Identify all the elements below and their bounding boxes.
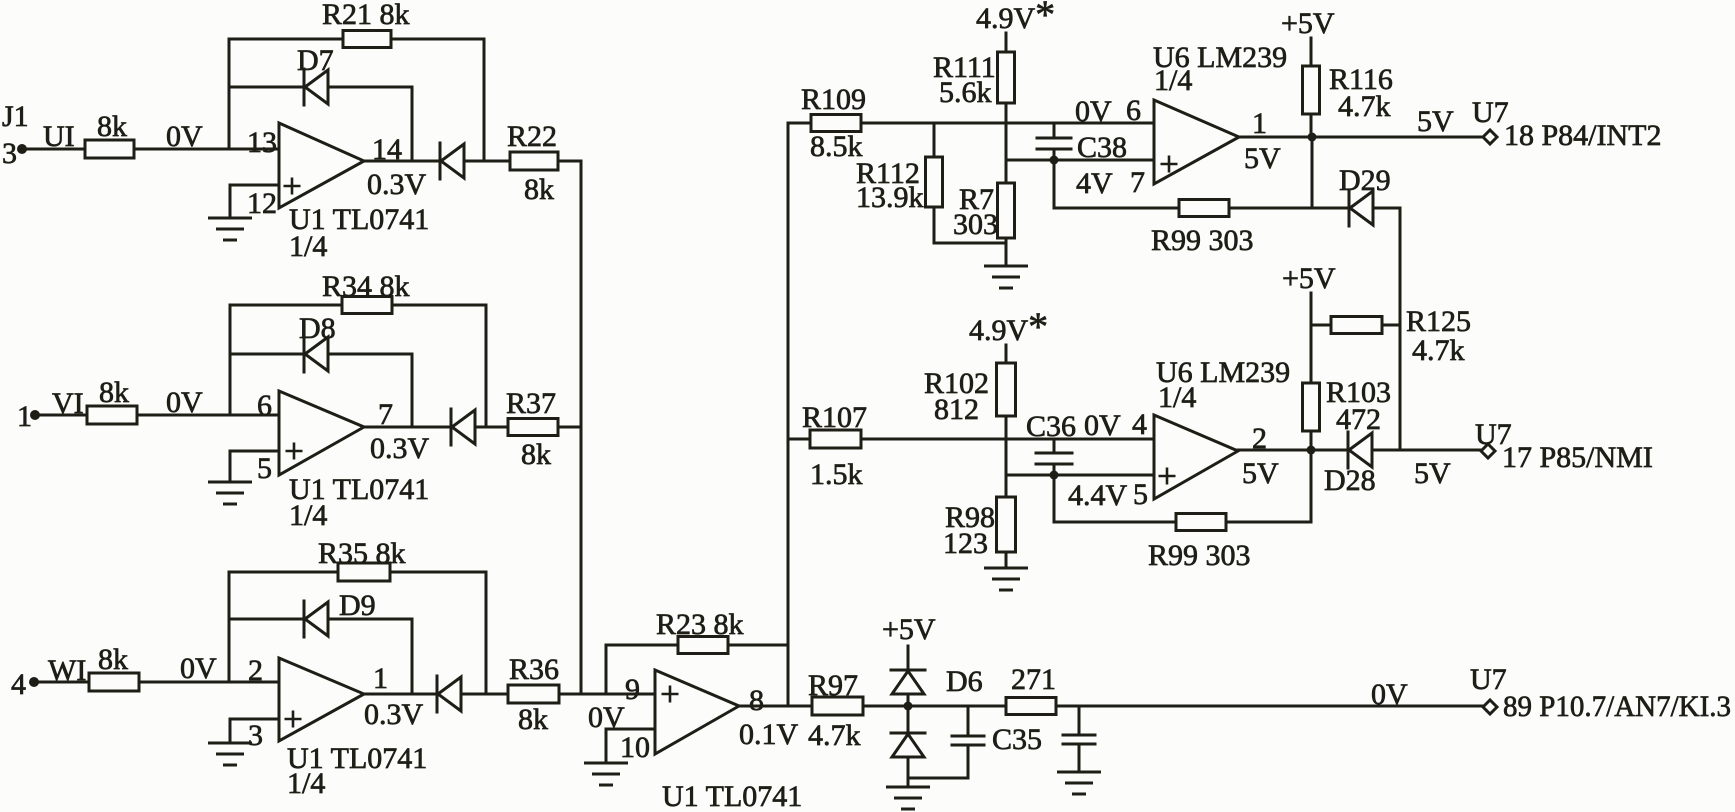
wire	[22, 148, 85, 151]
junction dot	[904, 702, 913, 711]
wire	[1054, 207, 1179, 210]
wire	[605, 729, 608, 763]
ground	[888, 786, 929, 789]
svg-text:271: 271	[1011, 663, 1056, 696]
wire	[390, 571, 486, 574]
wire	[1310, 293, 1313, 383]
wire	[1310, 114, 1313, 137]
wire	[461, 693, 508, 696]
wire (summing bus)	[580, 161, 583, 693]
resistor R97	[812, 697, 863, 715]
svg-text:5V: 5V	[1417, 105, 1454, 138]
svg-text:12: 12	[247, 187, 277, 220]
ground	[210, 217, 251, 220]
wire	[1053, 475, 1056, 522]
wire	[907, 646, 910, 670]
wire	[229, 719, 232, 743]
wire	[1056, 705, 1483, 708]
wire	[1005, 33, 1008, 52]
wire	[1005, 103, 1008, 123]
resistor 8k (UI input)	[85, 140, 134, 158]
resistor 8k (WI input)	[89, 673, 139, 691]
svg-text:4.9V*: 4.9V*	[976, 0, 1055, 37]
svg-text:2: 2	[248, 654, 263, 687]
input terminal dot (J1 pin 3)	[17, 144, 27, 154]
wire	[229, 38, 343, 41]
junction dot	[1050, 156, 1059, 165]
resistor R109	[811, 115, 861, 132]
resistor 271	[1006, 698, 1056, 715]
resistor R99 (comparator 2 feedback)	[1176, 514, 1226, 531]
diode D6 lower (clamp to ground)	[891, 732, 925, 735]
svg-text:R34 8k: R34 8k	[322, 270, 410, 303]
wire	[861, 122, 1154, 125]
op-amp U1B TL0741	[279, 391, 364, 475]
svg-text:4.9V*: 4.9V*	[969, 304, 1048, 349]
wire	[230, 184, 279, 187]
wire	[229, 185, 232, 218]
wire	[228, 39, 231, 149]
svg-text:18 P84/INT2: 18 P84/INT2	[1504, 119, 1662, 152]
wire	[483, 39, 486, 161]
junction dot	[1307, 446, 1316, 455]
terminal U7 pin 17	[1481, 444, 1495, 458]
svg-text:8.5k: 8.5k	[810, 130, 863, 163]
svg-text:C35: C35	[992, 723, 1042, 756]
svg-text:0V: 0V	[1075, 95, 1112, 128]
resistor R37	[508, 419, 558, 436]
wire	[606, 644, 678, 647]
resistor R7	[998, 183, 1015, 238]
capacitor (output filter)	[1078, 706, 1081, 735]
wire	[230, 450, 279, 453]
svg-text:R37: R37	[506, 387, 556, 420]
svg-text:4.4V: 4.4V	[1068, 479, 1128, 512]
resistor R102	[997, 363, 1016, 416]
wire	[1006, 474, 1154, 477]
op-amp U1A TL0741	[279, 123, 364, 208]
wire	[392, 304, 486, 307]
svg-text:472: 472	[1336, 403, 1381, 436]
svg-text:R35 8k: R35 8k	[318, 537, 406, 570]
diode D7	[303, 69, 306, 105]
svg-text:D6: D6	[946, 665, 983, 698]
wire	[1310, 38, 1313, 66]
diode D28	[1347, 432, 1350, 468]
wire	[230, 718, 279, 721]
wire	[728, 644, 788, 647]
svg-text:17 P85/NMI: 17 P85/NMI	[1502, 441, 1653, 474]
wire	[1310, 450, 1313, 522]
svg-text:5V: 5V	[1242, 457, 1279, 490]
wire	[1006, 159, 1154, 162]
wire	[1054, 521, 1176, 524]
wire	[933, 207, 936, 243]
wire	[1238, 449, 1481, 452]
wire	[788, 122, 811, 125]
svg-text:VI: VI	[52, 387, 84, 420]
svg-text:J1: J1	[2, 100, 29, 133]
wire	[328, 618, 412, 621]
svg-text:U7: U7	[1470, 663, 1507, 696]
svg-text:3: 3	[2, 137, 17, 170]
wire	[1005, 238, 1008, 266]
svg-text:4.7k: 4.7k	[1412, 334, 1465, 367]
svg-text:R36: R36	[509, 653, 559, 686]
svg-text:U1 TL0741: U1 TL0741	[662, 780, 802, 812]
capacitor C36	[1053, 439, 1056, 453]
svg-text:123: 123	[943, 527, 988, 560]
terminal U7 pin 18	[1483, 130, 1497, 144]
svg-text:+5V: +5V	[882, 613, 936, 646]
wire	[559, 693, 655, 696]
wire	[788, 438, 810, 441]
wire	[863, 705, 1006, 708]
svg-text:0.3V: 0.3V	[367, 168, 427, 201]
wire	[907, 694, 910, 706]
wire	[485, 572, 488, 694]
wire	[364, 160, 440, 163]
svg-text:D7: D7	[297, 44, 334, 77]
svg-text:4.7k: 4.7k	[808, 719, 861, 752]
wire	[908, 777, 968, 780]
wire	[328, 86, 412, 89]
wire	[934, 242, 1006, 245]
svg-text:R23 8k: R23 8k	[656, 608, 744, 641]
svg-text:D9: D9	[339, 589, 376, 622]
svg-text:1/4: 1/4	[289, 499, 327, 532]
wire	[464, 160, 510, 163]
svg-text:1: 1	[1252, 107, 1267, 140]
wire	[35, 414, 87, 417]
wire	[411, 619, 414, 694]
wire	[228, 572, 231, 682]
wire	[34, 681, 89, 684]
input terminal dot (pin 1)	[30, 410, 40, 420]
comparator U6B LM239	[1154, 415, 1238, 499]
svg-text:8k: 8k	[518, 703, 548, 736]
svg-text:4V: 4V	[1076, 167, 1113, 200]
svg-text:+5V: +5V	[1281, 7, 1335, 40]
svg-text:13: 13	[247, 126, 277, 159]
op-amp U1D TL0741	[655, 670, 739, 754]
wire	[606, 728, 655, 731]
svg-text:R107: R107	[802, 401, 867, 434]
capacitor C38	[1053, 123, 1056, 138]
ground	[1059, 771, 1100, 774]
svg-text:UI: UI	[43, 120, 75, 153]
svg-text:10: 10	[620, 731, 650, 764]
ground	[586, 762, 627, 765]
wire	[1005, 552, 1008, 568]
wire	[411, 87, 414, 161]
wire	[475, 426, 508, 429]
resistor R23	[678, 637, 728, 654]
svg-text:4: 4	[11, 668, 26, 701]
svg-text:89 P10.7/AN7/KI.3: 89 P10.7/AN7/KI.3	[1503, 690, 1731, 723]
ground	[210, 481, 251, 484]
svg-text:1: 1	[17, 400, 32, 433]
wire	[229, 451, 232, 482]
svg-text:D8: D8	[299, 312, 336, 345]
wire	[328, 353, 412, 356]
resistor R35	[338, 563, 390, 581]
wire	[1399, 208, 1402, 450]
wire	[411, 354, 414, 427]
svg-text:6: 6	[1126, 94, 1141, 127]
wire	[137, 414, 279, 417]
wire (output bus)	[787, 123, 790, 706]
wire	[229, 618, 304, 621]
resistor R22	[510, 152, 558, 170]
svg-text:6: 6	[257, 389, 272, 422]
wire	[1239, 136, 1483, 139]
diode (output, channel U)	[439, 143, 442, 179]
svg-text:812: 812	[934, 393, 979, 426]
ground	[986, 567, 1027, 570]
wire	[230, 304, 342, 307]
wire	[1005, 416, 1008, 439]
resistor R99 (comparator 1 feedback)	[1179, 200, 1229, 217]
svg-text:303: 303	[953, 208, 998, 241]
wire	[364, 693, 437, 696]
resistor R111	[998, 52, 1015, 103]
svg-text:R109: R109	[801, 83, 866, 116]
svg-text:+5V: +5V	[1282, 262, 1336, 295]
junction dot	[1308, 133, 1317, 142]
svg-text:1/4: 1/4	[1154, 64, 1192, 97]
wire	[907, 758, 910, 787]
svg-text:7: 7	[1130, 166, 1145, 199]
diode (output, channel W)	[436, 676, 439, 712]
svg-text:0.3V: 0.3V	[370, 432, 430, 465]
svg-text:3: 3	[248, 719, 263, 752]
svg-text:4.7k: 4.7k	[1338, 90, 1391, 123]
svg-text:1/4: 1/4	[1158, 381, 1196, 414]
resistor R112	[926, 157, 943, 207]
svg-text:0V: 0V	[1084, 409, 1121, 442]
ground	[986, 265, 1027, 268]
svg-text:5: 5	[1133, 478, 1148, 511]
svg-text:0V: 0V	[1371, 678, 1408, 711]
resistor 8k (VI input)	[87, 406, 137, 424]
resistor R98	[997, 497, 1016, 552]
wire	[1005, 345, 1008, 363]
wire	[1005, 123, 1008, 183]
svg-text:4: 4	[1132, 408, 1147, 441]
junction dot	[1050, 471, 1059, 480]
resistor R34	[342, 297, 392, 314]
wire	[1311, 137, 1314, 208]
capacitor C35	[967, 706, 970, 736]
svg-text:R21 8k: R21 8k	[322, 0, 410, 31]
svg-text:WI: WI	[48, 654, 86, 687]
svg-text:R99 303: R99 303	[1148, 539, 1251, 572]
diode (output, channel V)	[450, 409, 453, 445]
svg-text:8k: 8k	[521, 438, 551, 471]
diode D9	[303, 601, 306, 637]
diode D6 upper (clamp to +5V)	[891, 669, 925, 672]
diode D29	[1348, 190, 1351, 226]
ground	[210, 742, 251, 745]
svg-text:8k: 8k	[98, 643, 128, 676]
wire	[1311, 324, 1331, 327]
svg-text:1/4: 1/4	[289, 230, 327, 263]
wire	[229, 86, 304, 89]
wire	[1382, 324, 1400, 327]
wire	[933, 123, 936, 157]
wire	[229, 305, 232, 415]
input terminal dot (pin 4)	[29, 677, 39, 687]
svg-text:0.3V: 0.3V	[364, 698, 424, 731]
wire	[739, 705, 812, 708]
svg-text:R99 303: R99 303	[1151, 224, 1254, 257]
wire	[364, 426, 451, 429]
wire	[229, 571, 338, 574]
wire	[1005, 439, 1008, 497]
svg-text:1.5k: 1.5k	[810, 458, 863, 491]
svg-text:9: 9	[625, 673, 640, 706]
wire	[558, 426, 581, 429]
svg-text:0.1V: 0.1V	[739, 718, 799, 751]
wire	[861, 438, 1154, 441]
wire	[1310, 431, 1313, 450]
resistor R36	[508, 685, 559, 703]
wire	[485, 305, 488, 427]
svg-text:R97: R97	[808, 669, 858, 702]
wire	[907, 706, 910, 733]
resistor R116	[1303, 66, 1320, 114]
svg-text:D28: D28	[1324, 464, 1376, 497]
resistor R103	[1303, 383, 1320, 431]
resistor R125	[1331, 317, 1382, 334]
diode D8	[303, 336, 306, 372]
op-amp U1C TL0741	[279, 658, 364, 741]
wire	[1226, 521, 1311, 524]
svg-text:0V: 0V	[180, 652, 217, 685]
svg-text:8: 8	[749, 684, 764, 717]
svg-text:R22: R22	[507, 120, 557, 153]
svg-text:1: 1	[373, 662, 388, 695]
terminal U7 pin 89	[1483, 700, 1497, 714]
svg-text:C36: C36	[1026, 410, 1076, 443]
svg-text:5: 5	[257, 452, 272, 485]
wire	[558, 160, 581, 163]
svg-text:13.9k: 13.9k	[856, 181, 924, 214]
wire	[134, 148, 279, 151]
wire	[1053, 160, 1056, 208]
svg-text:5V: 5V	[1244, 142, 1281, 175]
wire	[139, 681, 279, 684]
wire	[605, 645, 608, 693]
comparator U6A LM239	[1154, 100, 1239, 184]
resistor R107	[810, 430, 861, 448]
wire	[391, 38, 484, 41]
svg-text:D29: D29	[1339, 164, 1391, 197]
svg-text:1/4: 1/4	[287, 767, 325, 800]
svg-text:8k: 8k	[524, 173, 554, 206]
svg-text:5V: 5V	[1414, 457, 1451, 490]
wire	[1373, 207, 1400, 210]
svg-text:8k: 8k	[97, 110, 127, 143]
wire	[1229, 207, 1349, 210]
svg-text:5.6k: 5.6k	[939, 76, 992, 109]
resistor R21	[343, 31, 391, 48]
wire	[230, 353, 304, 356]
svg-text:8k: 8k	[99, 376, 129, 409]
